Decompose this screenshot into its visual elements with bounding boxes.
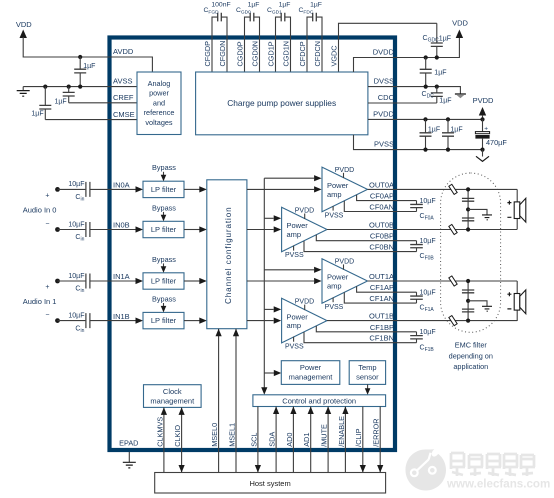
svg-text:EMC filter: EMC filter [455,341,488,350]
svg-text:1µF: 1µF [310,1,322,8]
svg-text:1µF: 1µF [434,70,446,77]
svg-text:PVSS: PVSS [325,304,344,311]
svg-text:SCL: SCL [249,433,258,447]
svg-text:PVSS: PVSS [285,343,304,350]
svg-text:/CLIP: /CLIP [354,428,363,446]
svg-text:CF0AP: CF0AP [370,192,394,201]
wire control bus branch to power management [264,372,275,374]
svg-text:CREF: CREF [113,93,134,102]
node OUT1B junction [466,319,470,323]
wire OUT0A from amp [368,188,398,190]
power flag VDD (top left) [20,30,27,39]
node AVSS junction c [78,85,82,89]
wire to speaker 0 - [516,219,518,230]
input terminal node (IN1A) [55,279,60,284]
svg-text:CF0BN: CF0BN [369,243,394,252]
svg-text:OUT0A: OUT0A [369,180,394,189]
node DVDD junction b [435,55,439,59]
svg-text:CF1AN: CF1AN [369,294,394,303]
op-amp/power amp U-0A [322,167,368,212]
capacitor Cin 10µF (IN0B) [58,229,86,231]
node DVSS junction b [435,85,439,89]
node OUT0A junction [466,187,470,191]
svg-text:amp: amp [327,281,342,290]
svg-text:OUT1B: OUT1B [369,312,394,321]
label PVSS (amp 1A) [332,298,334,303]
svg-text:CMSE: CMSE [113,110,135,119]
svg-text:Host system: Host system [249,479,290,488]
wire OUT1A from amp [368,280,398,282]
svg-text:Temp: Temp [358,363,376,372]
svg-text:VGDC: VGDC [329,45,338,66]
svg-text:MSEL0: MSEL0 [210,423,219,447]
svg-text:Control and protection: Control and protection [282,397,356,406]
wire to amp 1A input - [247,280,314,282]
wire CMSE pin [45,119,111,121]
svg-text:−: − [45,221,49,228]
svg-text:1µF: 1µF [31,111,43,118]
svg-text:CLKMVS: CLKMVS [155,417,164,447]
svg-text:1µF: 1µF [279,1,291,8]
svg-text:Cin: Cin [75,286,84,295]
block LP filter 4 [143,312,184,328]
svg-text:SDA: SDA [268,432,277,447]
wire CF1AP external [397,291,417,293]
svg-text:10µF: 10µF [68,181,84,188]
wire LP filter 2 to channel configuration [184,229,200,231]
wire CF1BN external [397,342,417,344]
capacitor CGD0 1µF (flying cap pair CGD0P/CGD0N) [245,17,260,72]
capacitor 1uF CREF [68,87,70,93]
ferrite bead (OUT0B) [449,224,457,234]
block LP filter 3 [143,273,184,289]
svg-text:power: power [149,89,169,98]
wire EMC shunt vertical [467,281,469,321]
wire CF0BP external [397,240,417,242]
ferrite bead (OUT0A) [449,184,457,194]
speaker LS0 [514,202,520,219]
wire to amp 0B input + [264,217,273,219]
wire EMC shunt vertical [467,189,469,229]
svg-text:10µF: 10µF [68,273,84,280]
svg-text:CFGDP: CFGDP [203,41,212,67]
wire VGDC net (to CGDC cap) [339,23,437,72]
capacitor EMC (lower, 1B) [462,309,474,312]
wire OUT1B external [397,320,517,322]
capacitor EMC (lower, 0B) [462,218,474,221]
wire PVDD net [397,118,483,120]
input terminal node (IN0B) [55,227,60,232]
node DVSS junction a [424,85,428,89]
arrow into LP filter (IN1A) [136,278,144,284]
ground (EMC 1A/1B) [468,301,487,306]
capacitor CF1B 10µF (flying) [416,332,418,336]
block host system [155,473,386,494]
svg-text:PVDD: PVDD [373,110,394,119]
node EMC mid junction [466,299,470,303]
block LP filter 1 [143,181,184,197]
arrow into LP filter (IN0B) [136,226,144,232]
ferrite bead (OUT1B) [449,316,457,326]
node PVDD junction c [480,117,484,121]
svg-text:CGD0P: CGD0P [235,41,244,66]
speaker LS1 [514,294,520,311]
svg-text:CF1BN: CF1BN [369,334,394,343]
pin MSEL1 (wire+label) [235,329,237,473]
svg-text:Channel configuration: Channel configuration [224,206,233,304]
svg-text:DVDD: DVDD [373,48,395,57]
input terminal node (IN0A) [55,187,60,192]
svg-text:10µF: 10µF [420,238,436,245]
capacitor 1uF PVDD-PVSS (1st) [425,119,427,132]
svg-text:CF0B: CF0B [420,253,435,262]
capacitor Cin 10µF (IN1A) [58,280,86,282]
pin /ENABLE (wire+label) [344,407,346,473]
arrow control bus into control block [261,387,267,395]
svg-text:CF1A: CF1A [420,305,435,314]
wire to speaker 1 - [516,310,518,321]
wire PVSS net [397,149,483,151]
label PVSS (amp 1B) [293,337,295,342]
EMC filter boundary (dotted) [441,173,501,332]
wire CF0BN external [397,251,417,253]
wire AVSS net (left) [23,86,111,88]
wire PVDD to charge pump box [368,118,397,120]
svg-text:CF0AN: CF0AN [369,203,394,212]
svg-text:AD0: AD0 [285,433,294,447]
svg-text:OUT0B: OUT0B [369,221,394,230]
svg-text:VDD: VDD [16,20,32,29]
chip outline (device boundary) [110,38,396,451]
svg-text:1µF: 1µF [54,98,66,105]
svg-text:www.elecfans.com: www.elecfans.com [446,478,550,491]
svg-text:CFDCN: CFDCN [313,41,322,67]
wire CF1AP from amp [357,286,397,292]
svg-text:100nF: 100nF [211,1,230,8]
node PVDD junction a [423,117,427,121]
wire to amp 1B input - [247,320,274,322]
wire CF0AP from amp [357,195,397,201]
svg-text:VDD: VDD [452,19,468,28]
svg-text:amp: amp [327,190,342,199]
ground (DVSS) [455,93,466,95]
svg-text:sensor: sensor [356,372,379,381]
wire CMSE to analog block [111,119,137,121]
node AVSS junction b [67,85,71,89]
pin MSEL0 (wire+label) [218,329,220,473]
wire to speaker 1 + [516,281,518,294]
svg-text:IN0A: IN0A [113,181,130,190]
pin AD0 (wire+label) [292,407,294,473]
svg-text:Bypass: Bypass [152,294,176,303]
svg-text:CFGDN: CFGDN [218,41,227,67]
wire AVSS to analog block [111,86,137,88]
svg-text:amp: amp [287,321,302,330]
node PVSS junction a [423,148,427,152]
svg-text:Analog: Analog [148,79,171,88]
capacitor 1uF DVDD-DVSS [425,58,427,70]
svg-text:Audio In 1: Audio In 1 [23,297,57,306]
svg-text:10µF: 10µF [68,312,84,319]
svg-text:Cin: Cin [75,234,84,243]
capacitor CGD1 1µF (flying cap pair CGD1P/CGD1N) [276,17,291,72]
pin SCL (wire+label) [257,407,259,473]
svg-text:−: − [45,312,49,319]
svg-text:LP filter: LP filter [151,225,177,234]
op-amp/power amp U-1B [282,298,327,343]
svg-text:/ENABLE: /ENABLE [337,416,346,447]
capacitor CGDC 1uF (VGDC-DVDD) [436,23,438,43]
svg-text:LP filter: LP filter [151,316,177,325]
wire CREF pin [69,102,112,104]
node PVDD junction b [446,117,450,121]
wire OUT1A external [397,280,517,282]
wire CF1BP external [397,331,417,333]
wire CREF to analog block [111,102,137,104]
svg-text:1µF: 1µF [248,1,260,8]
svg-text:PVDD: PVDD [473,96,494,105]
svg-text:CF1AP: CF1AP [370,283,394,292]
arrow into LP filter (IN1B) [136,318,144,324]
wire CF1AN from amp [344,292,397,303]
wire temp sensor to control [367,384,369,389]
block control and protection [253,395,386,407]
pin SDA (wire+label) [275,407,277,473]
svg-text:Cin: Cin [75,194,84,203]
svg-text:1µF: 1µF [83,63,95,70]
capacitor Cin 10µF (IN0A) [58,188,86,190]
wire to amp 0A input - [247,188,314,190]
svg-text:1µF: 1µF [439,35,451,42]
svg-text:CGD1N: CGD1N [281,41,290,67]
svg-text:CF0A: CF0A [420,213,435,222]
svg-text:Bypass: Bypass [152,163,176,172]
wire LP filter 1 to channel configuration [184,188,200,190]
block LP filter 2 [143,221,184,237]
label PVSS (amp 0B) [293,246,295,251]
wire DVSS net [368,87,460,94]
svg-text:+: + [45,192,49,199]
capacitor CF1A 10µF (flying) [416,292,418,296]
wire CF0AN external [397,211,417,213]
svg-text:IN1B: IN1B [113,312,130,321]
svg-text:PVDD: PVDD [335,258,354,265]
svg-text:EPAD: EPAD [119,439,138,448]
svg-text:PVSS: PVSS [285,252,304,259]
svg-text:PVSS: PVSS [374,140,394,149]
capacitor CFDC 1µF (flying cap pair CFDCP/CFDCN) [307,17,322,72]
block clock management [144,385,202,408]
op-amp/power amp U-1A [322,259,368,304]
capacitor CFGD 100nF (flying cap pair CFGDP/CFGDN) [212,17,227,72]
wire to amp 0B input - [247,229,274,231]
block U-analog: Analog power and reference voltages [137,72,181,135]
svg-text:MSEL1: MSEL1 [227,423,236,447]
ground (EMC 0A/0B) [468,209,487,214]
svg-text:CGD1P: CGD1P [266,41,275,66]
arrow into LP filter (IN0A) [136,186,144,192]
svg-text:CLKIO: CLKIO [173,425,182,447]
svg-text:depending on: depending on [449,351,493,360]
block channel configuration [207,180,247,329]
power flag VDD (right) [456,30,463,39]
svg-text:management: management [150,396,195,405]
svg-text:CF1BP: CF1BP [370,323,394,332]
svg-text:Power: Power [327,273,349,282]
ferrite bead (OUT1A) [449,276,457,286]
wire CF0BN from amp [304,241,397,252]
svg-text:AD1: AD1 [302,433,311,447]
svg-text:1µF: 1µF [428,126,440,133]
node OUT0B junction [466,227,470,231]
svg-text:Cin: Cin [75,325,84,334]
wire CF1AN external [397,302,417,304]
svg-text:voltages: voltages [145,118,173,127]
wire CF0AP external [397,200,417,202]
wire PVSS elbow to charge pump box [354,135,398,150]
node EMC mid junction [466,207,470,211]
pin AD1 (wire+label) [310,407,312,473]
svg-text:/MUTE: /MUTE [320,424,329,447]
svg-text:Power: Power [327,181,349,190]
svg-text:CF0BP: CF0BP [370,232,394,241]
svg-text:management: management [289,372,334,381]
node AVSS junction a [43,85,47,89]
ground (analog, left) [22,87,24,91]
svg-text:DVSS: DVSS [374,76,394,85]
wire VDD to AVDD pin [23,37,111,57]
wire AVDD to analog block [111,57,152,72]
pin /MUTE (wire+label) [327,407,329,473]
capacitor CF0B 10µF (flying) [416,241,418,245]
node PVSS junction b [446,148,450,152]
svg-text:10µF: 10µF [420,290,436,297]
wire to amp 1A input + [264,269,314,271]
svg-text:+: + [45,284,49,291]
svg-text:Bypass: Bypass [152,255,176,264]
capacitor 1uF AVDD-AVSS [79,57,81,69]
capacitor 1uF CMSE [44,87,46,106]
svg-text:LP filter: LP filter [151,277,177,286]
svg-text:AVDD: AVDD [113,47,134,56]
svg-text:10µF: 10µF [420,198,436,205]
svg-text:PVSS: PVSS [325,212,344,219]
svg-text:PVDD: PVDD [335,167,354,174]
node DVDD junction a [424,55,428,59]
power flag PVDD (right) [479,107,486,116]
svg-text:10µF: 10µF [420,329,436,336]
block power management [281,361,340,385]
node OUT1A junction [466,279,470,283]
svg-text:Bypass: Bypass [152,203,176,212]
svg-text:Power: Power [287,221,309,230]
svg-text:Clock: Clock [163,387,182,396]
wire OUT0B external [397,229,517,231]
capacitor 1uF PVDD-PVSS (2nd) [447,119,449,132]
pin CLKMVS (wire+label) [163,407,165,472]
svg-text:OUT1A: OUT1A [369,272,394,281]
wire CF0AN from amp [344,201,397,212]
wire CDC pin [368,102,437,104]
node PVSS junction c [480,148,484,152]
pin /ERROR (wire+label) [379,407,381,473]
op-amp/power amp U-0B [282,207,327,252]
pin CLKIO (wire+label) [181,407,183,472]
watermark glyphs (decorative) [450,453,465,476]
svg-text:reference: reference [144,108,175,117]
svg-text:10µF: 10µF [68,221,84,228]
svg-text:amp: amp [287,230,302,239]
capacitor CDC 1uF (DVSS-CDC) [436,87,438,93]
svg-text:CFDCP: CFDCP [298,41,307,66]
wire CF1BP from amp [316,326,397,332]
svg-text:1µF: 1µF [450,126,462,133]
label PVSS (amp 0A) [332,206,334,211]
wire CF0BP from amp [316,235,397,241]
ground (EPAD) [128,452,130,462]
svg-text:AVSS: AVSS [113,77,132,86]
wire DVDD net [354,38,460,72]
svg-text:Audio In 0: Audio In 0 [23,205,57,214]
capacitor Cin 10µF (IN1B) [58,320,86,322]
ground (PVSS, arrow style) [482,150,484,157]
wire control bus (vertical) [263,178,265,388]
svg-text:CDC: CDC [378,93,395,102]
wire OUT0B from amp [327,229,397,231]
wire LP filter 4 to channel configuration [184,320,200,322]
wire to amp 0A input + [264,177,314,179]
svg-text:470µF: 470µF [486,138,507,147]
wire OUT1B from amp [327,320,397,322]
node AVDD junction [78,55,82,59]
wire to amp 1B input + [264,308,273,310]
svg-text:Power: Power [287,312,309,321]
svg-text:application: application [453,362,488,371]
block U-chargepump: Charge pump power supplies [196,72,368,135]
svg-text:/ERROR: /ERROR [372,418,381,446]
svg-text:and: and [153,98,165,107]
pin /CLIP (wire+label) [362,407,364,473]
watermark logo circle (decorative) [406,449,447,490]
svg-text:IN1A: IN1A [113,272,130,281]
svg-text:IN0B: IN0B [113,221,130,230]
capacitor CF0A 10µF (flying) [416,201,418,205]
svg-text:1µF: 1µF [439,98,451,105]
wire LP filter 3 to channel configuration [184,280,200,282]
wire OUT0A external [397,188,517,190]
svg-text:CF1B: CF1B [420,344,435,353]
svg-text:CGD0N: CGD0N [250,41,259,67]
block temp sensor [349,361,385,385]
capacitor 470uF electrolytic PVDD-PVSS [482,119,484,131]
svg-text:LP filter: LP filter [151,185,177,194]
capacitor EMC (upper, 1A) [462,290,474,293]
svg-text:+: + [484,125,488,132]
capacitor EMC (upper, 0A) [462,198,474,201]
svg-text:Charge pump power supplies: Charge pump power supplies [227,98,336,108]
input terminal node (IN1B) [55,318,60,323]
svg-text:Power: Power [300,363,322,372]
wire CF1BN from amp [304,332,397,343]
wire to speaker 0 + [516,189,518,202]
